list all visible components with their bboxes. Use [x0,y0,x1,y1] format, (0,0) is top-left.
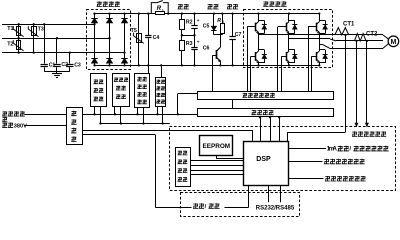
label fault relay output 故障继电器输出 [325,176,330,181]
varistor T5 [138,14,140,66]
wire [120,106,122,123]
rectifier module box [87,10,131,70]
svg-text:C4: C4 [153,35,160,41]
block voltage detect 欠压检测电路 [156,78,166,107]
wire supply to keypad [82,134,155,136]
svg-text:R2: R2 [186,20,193,26]
wire bus2 [101,123,170,125]
wire [157,106,159,114]
wire [25,114,67,116]
svg-text:C5: C5 [203,24,210,30]
varistor T3 [33,24,35,52]
wire supply to DSP [82,130,253,132]
current transformer CT1 [335,28,349,35]
block EEPROM [200,136,233,156]
wire [191,174,244,176]
wire [94,106,96,114]
label braking 制动 [207,4,212,9]
wire opto-DSP [260,117,262,142]
label DC bus or AC380V 直流母线/或/交流380V [2,111,7,116]
keypad comms box [181,193,300,217]
bypass contact [151,3,168,14]
wire [137,107,139,114]
rectifier diode bottom D4 [91,58,97,63]
wire CT2 signal a [356,41,358,124]
resistor R2 [181,14,183,20]
wire sense to detect box [161,65,163,77]
svg-text:T1: T1 [7,26,13,32]
ground [56,71,58,74]
wire [114,106,116,114]
wire analog display out [289,148,326,150]
wire [191,160,244,162]
inverter module box [244,10,333,68]
junction [147,12,149,14]
svg-text:T3: T3 [38,27,44,33]
wire [258,35,260,51]
wire gate lines [247,27,249,92]
wire phase L3 [2,52,125,54]
block DSP [244,142,289,186]
label keypad/display 键盘/显示 [193,203,198,208]
varistor T2 [18,38,20,52]
rectifier diode top D1 [94,14,96,66]
wire [258,14,260,22]
rectifier diode top D2 [109,14,111,66]
wire phase U [259,34,384,36]
control section box [170,127,396,191]
junction [93,23,95,25]
current transformer CT2 [354,34,366,41]
capacitor C2 [53,64,60,66]
rectifier diode bottom D5 [106,58,112,63]
svg-text:CT2: CT2 [366,32,378,38]
wire [100,106,102,123]
wire [214,34,223,36]
wire [232,100,234,109]
svg-text:C6: C6 [203,46,210,52]
block opto isolation 光耦隔离 [198,109,334,117]
resistor R4 [222,14,224,24]
block fan drive 风扇驱动电路 [91,74,107,107]
block external control input 外部控制端子输入 [176,148,191,187]
svg-text:T2: T2 [7,42,13,48]
wire gate lines [308,27,310,92]
wire [56,38,58,63]
wire open collector out [289,161,323,163]
capacitor C1 [41,64,48,66]
svg-text:DSP: DSP [256,156,271,163]
svg-text:CT1: CT1 [343,21,355,27]
svg-text:M: M [390,39,396,46]
rectifier diode bottom D6 [121,58,127,63]
svg-text:4: 4 [222,20,224,24]
svg-text:+: + [197,18,200,23]
wire riser to drive box [177,94,179,115]
label open collector output 集电极开路输出 [324,159,329,164]
svg-text:1mA: 1mA [327,146,338,153]
wire opto-DSP [270,117,272,142]
label snubber 吸收 [227,4,232,9]
svg-text:R: R [217,18,221,24]
capacitor C6 [194,35,196,47]
wire [162,106,164,123]
svg-text:380V: 380V [14,123,27,129]
wire negative rail [95,65,320,67]
wire [288,39,290,51]
varistor T1 [18,24,20,38]
junction [18,23,20,25]
label current signal processing 电流信号处理 [352,131,357,136]
wire [191,165,244,167]
wire [191,170,244,172]
svg-text:RS232/RS485: RS232/RS485 [256,206,295,212]
wire CT1 signal [345,35,347,132]
wire [319,44,321,51]
block drive protection 驱动保护电路 [198,92,334,100]
wire [248,185,250,207]
wire bus1 [82,114,198,116]
wire gate lines [277,27,279,92]
label rectifier module 整流模块 [97,1,102,6]
capacitor C7 [232,14,234,37]
wire fault relay out [289,178,324,180]
block power-loss restart 停电再起动电路 [135,74,150,108]
wire phase V [289,38,330,40]
svg-text:C1: C1 [49,62,56,68]
wire positive rail [95,13,320,15]
label inverter module 逆变模块 [263,1,268,6]
block switching supply 开关电源 [67,108,83,145]
wire RS comm a [268,185,270,202]
wire [44,71,70,73]
block contactor drive 接触器驱动电路 [113,74,130,107]
wire [288,14,290,22]
svg-text:+: + [197,40,200,45]
wire [216,156,218,159]
wire opto-DSP [279,117,281,142]
resistor R3 [181,35,183,40]
wire RS comm b [280,185,282,202]
capacitor C4 [148,14,150,35]
wire [319,14,321,22]
braking diode [213,14,215,26]
wire phase W [319,44,322,46]
label filter 滤波 [178,4,183,9]
svg-text:R3: R3 [186,41,193,47]
rectifier diode top D3 [124,14,126,66]
wire phase L1 [2,24,95,26]
wire [182,35,195,37]
capacitor C5 [194,14,196,26]
wire phase L2 [2,38,110,40]
svg-text:C7: C7 [235,32,242,38]
wire CT2 signal b [366,41,368,124]
motor M [383,35,389,39]
capacitor C3 [66,64,73,66]
svg-text:c: c [162,8,164,12]
braking transistor Q1 [220,35,222,48]
svg-text:/: / [349,146,351,153]
wire [44,24,46,63]
wire [69,53,71,64]
svg-text:T5: T5 [131,28,137,34]
svg-text:C3: C3 [74,62,81,68]
wire [143,107,145,123]
svg-text:EEPROM: EEPROM [202,143,230,150]
charging resistor Rc [156,12,165,15]
wire [24,125,66,127]
wire braking gate [212,56,214,92]
